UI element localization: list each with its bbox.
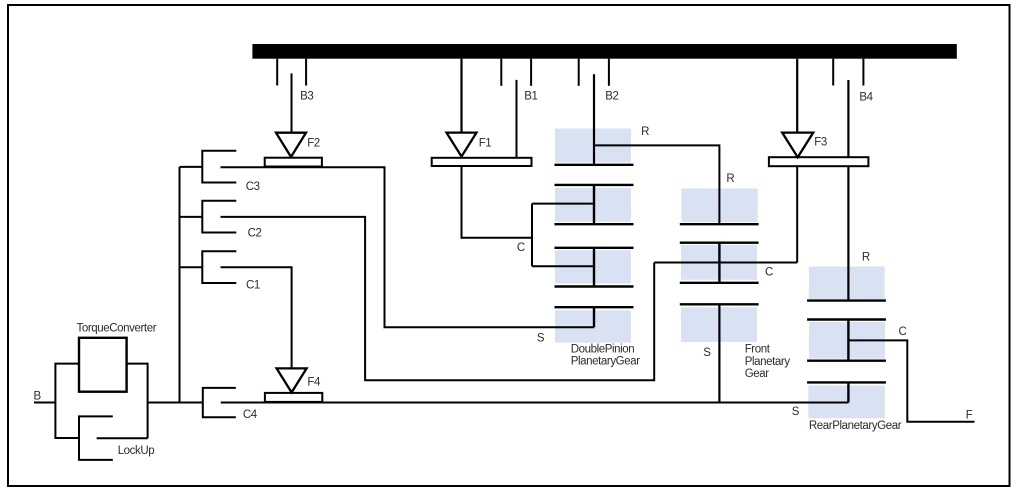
gear shade DoublePinion P2 <box>555 250 631 283</box>
svg-text:C4: C4 <box>243 409 258 421</box>
svg-text:C3: C3 <box>246 181 260 193</box>
housing bar <box>252 44 956 59</box>
gear shade Rear S <box>808 385 885 418</box>
svg-text:B1: B1 <box>524 90 537 102</box>
Rear carrier gear lines <box>807 320 886 361</box>
svg-text:R: R <box>862 252 870 264</box>
freewheel F2 triangle <box>276 133 306 157</box>
clutch C2 <box>180 201 237 233</box>
torque converter box <box>79 338 127 392</box>
gear shade DoublePinion R <box>555 129 631 163</box>
svg-text:TorqueConverter: TorqueConverter <box>77 322 157 334</box>
svg-text:PlanetaryGear: PlanetaryGear <box>571 355 641 367</box>
svg-text:Planetary: Planetary <box>745 356 791 368</box>
freewheel F2 rail <box>265 158 322 167</box>
left bus wire <box>179 167 181 403</box>
brake B1 <box>501 59 531 158</box>
gear shade DoublePinion P1 <box>555 188 631 222</box>
torque converter right bracket <box>127 364 148 439</box>
brake B2 fixed plates <box>579 59 609 86</box>
Front ring gear lines <box>680 223 759 225</box>
DoublePinion pinion1 gear lines <box>555 185 634 224</box>
wire Front sun to main shaft <box>718 304 720 402</box>
Rear sun gear lines <box>807 382 886 402</box>
svg-text:S: S <box>792 406 800 418</box>
wire Rear carrier to output F <box>848 340 974 421</box>
svg-text:F2: F2 <box>307 137 320 149</box>
svg-text:R: R <box>726 173 734 185</box>
svg-text:Gear: Gear <box>745 368 770 380</box>
svg-text:B: B <box>34 390 42 402</box>
svg-text:B2: B2 <box>605 90 618 102</box>
wire main shaft TC to C4 <box>148 402 203 404</box>
DoublePinion ring gear lines <box>555 164 634 166</box>
wire B4 plate to Rear ring <box>847 80 849 301</box>
Front pinion gear lines <box>680 243 759 283</box>
wire DoublePinion ring to Front ring <box>594 145 719 224</box>
svg-text:F: F <box>966 409 973 421</box>
wire bar to F1 <box>460 59 462 133</box>
wire F3 to Front carrier <box>796 166 798 262</box>
svg-text:B3: B3 <box>300 91 313 103</box>
freewheel F3 rail <box>769 157 869 166</box>
wire B2 plate to DoublePinion ring <box>593 74 595 165</box>
svg-text:F4: F4 <box>307 377 321 389</box>
gear shade Front S <box>681 307 757 342</box>
freewheel F3 triangle <box>782 133 813 158</box>
svg-text:RearPlanetaryGear: RearPlanetaryGear <box>809 420 902 432</box>
wire C2 to Front carrier <box>221 217 655 380</box>
clutch LockUp <box>79 416 148 460</box>
gear shade Rear R <box>809 267 885 300</box>
svg-text:B4: B4 <box>859 91 873 103</box>
svg-text:C1: C1 <box>246 280 260 292</box>
svg-text:F3: F3 <box>814 137 827 149</box>
svg-text:C: C <box>899 326 907 338</box>
svg-text:S: S <box>537 332 545 344</box>
DoublePinion pinion2 gear lines <box>555 248 634 287</box>
DoublePinion carrier branch P1 <box>532 203 594 205</box>
DoublePinion sun gear lines <box>555 307 634 327</box>
gear shade Rear C <box>809 322 885 359</box>
DoublePinion carrier branch P2 <box>532 265 594 267</box>
svg-text:S: S <box>703 347 711 359</box>
torque converter left bracket <box>55 364 79 438</box>
wire F1 to DoublePinion carrier <box>462 166 533 238</box>
svg-text:C2: C2 <box>248 227 262 239</box>
svg-text:R: R <box>641 126 649 138</box>
svg-text:DoublePinion: DoublePinion <box>571 343 635 355</box>
Rear ring gear line <box>807 299 886 301</box>
gear shade DoublePinion S <box>555 310 631 342</box>
svg-text:Front: Front <box>745 344 771 356</box>
Front sun gear line <box>680 303 759 305</box>
freewheel F1 triangle <box>447 133 477 157</box>
svg-text:F1: F1 <box>479 137 492 149</box>
brake B4 fixed plates <box>833 59 863 86</box>
clutch C1 <box>180 251 237 283</box>
wire main shaft C4 to Rear sun <box>221 402 849 404</box>
clutch C3 <box>180 151 237 183</box>
wire C3 to DoublePinion sun <box>221 167 595 327</box>
svg-text:LockUp: LockUp <box>118 445 155 457</box>
DoublePinion carrier bar <box>531 204 533 267</box>
freewheel F4 rail <box>265 393 322 402</box>
svg-text:C: C <box>765 267 773 279</box>
wire B input lead <box>34 402 55 404</box>
freewheel F1 rail <box>432 158 532 166</box>
Front carrier line <box>654 262 797 264</box>
clutch C4 <box>203 388 236 417</box>
gear shade Front P <box>681 245 757 280</box>
brake B3 <box>277 59 306 133</box>
svg-text:C: C <box>517 242 525 254</box>
wire C1 to F4 <box>221 267 292 368</box>
freewheel F4 triangle <box>277 368 307 392</box>
gear shade Front R <box>682 188 758 222</box>
wire bar to F3 <box>796 59 798 133</box>
